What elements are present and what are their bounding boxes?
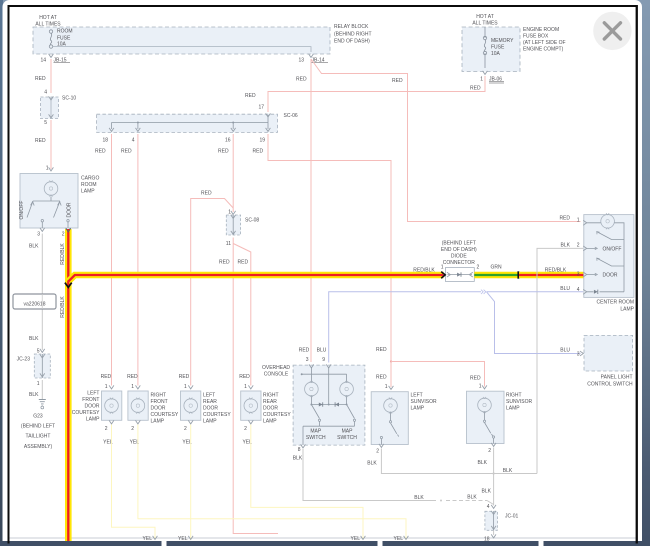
svg-text:LAMP: LAMP <box>263 419 277 425</box>
svg-text:ASSEMBLY): ASSEMBLY) <box>24 444 53 450</box>
svg-text:RIGHT: RIGHT <box>151 393 167 399</box>
ground G23 <box>21 400 55 451</box>
wire BLK center room lamp pin 2 down <box>537 248 583 473</box>
svg-text:3: 3 <box>37 232 40 238</box>
relay block (behind right end of dash) box <box>33 24 372 54</box>
svg-text:LAMP: LAMP <box>203 419 217 425</box>
engine room fuse box (memory fuse) <box>462 27 566 72</box>
connector JC-01 <box>484 504 519 543</box>
svg-text:LAMP: LAMP <box>506 406 520 412</box>
svg-text:3: 3 <box>577 352 580 358</box>
black pin marker on highlighted wire at diode pin 1 <box>441 272 445 279</box>
hot at all times label (left) <box>35 15 61 28</box>
svg-text:ROOM: ROOM <box>81 182 97 188</box>
bottom bar notches <box>162 541 167 546</box>
svg-text:JC-23: JC-23 <box>17 357 31 363</box>
svg-text:MEMORY: MEMORY <box>491 38 514 44</box>
svg-text:BLU: BLU <box>560 348 570 354</box>
wire RED SC-06 pin 4 to right front door courtesy lamp <box>137 134 139 386</box>
wire GRN highlighted: diode connector pin 2 to splice <box>474 272 519 279</box>
svg-text:18: 18 <box>102 138 108 144</box>
svg-text:LAMP: LAMP <box>86 417 100 423</box>
black junction arrow on highlighted wire <box>65 283 72 288</box>
svg-text:RED: RED <box>35 138 46 144</box>
svg-text:RED: RED <box>101 374 112 380</box>
svg-text:RIGHT: RIGHT <box>263 393 279 399</box>
svg-text:CONTROL SWITCH: CONTROL SWITCH <box>587 382 633 388</box>
svg-text:BLK: BLK <box>482 489 492 495</box>
svg-text:18: 18 <box>484 537 490 543</box>
svg-text:1: 1 <box>244 384 247 390</box>
svg-text:5: 5 <box>44 120 47 126</box>
map lamp left <box>305 381 319 397</box>
svg-text:RED: RED <box>179 374 190 380</box>
wire RED branch to left rear door courtesy lamp <box>191 199 234 386</box>
wire RED JB-06 to SC-06 pin 17 <box>268 76 485 112</box>
svg-text:FRONT: FRONT <box>82 397 99 403</box>
map switch right <box>347 405 355 419</box>
svg-text:BLK: BLK <box>29 336 39 342</box>
svg-text:RED/BLK: RED/BLK <box>413 268 435 274</box>
cargo room lamp <box>19 166 99 238</box>
connector SC-10 <box>41 90 77 127</box>
svg-text:RED: RED <box>376 375 387 381</box>
svg-text:FUSE: FUSE <box>491 45 505 51</box>
wire YEL right front lamp pin 2 to bottom <box>138 425 406 541</box>
svg-text:BLK: BLK <box>414 495 424 501</box>
svg-text:END OF DASH): END OF DASH) <box>334 39 370 45</box>
svg-text:11: 11 <box>226 241 231 247</box>
svg-text:ALL TIMES: ALL TIMES <box>472 21 498 27</box>
svg-text:RED: RED <box>245 93 256 99</box>
fuse ROOM FUSE 10A <box>49 29 72 49</box>
svg-text:PANEL LIGHT: PANEL LIGHT <box>601 375 633 381</box>
svg-text:BLK: BLK <box>467 495 477 501</box>
svg-text:DOOR: DOOR <box>603 273 618 279</box>
svg-text:4: 4 <box>132 138 135 144</box>
svg-text:(BEHIND LEFT: (BEHIND LEFT <box>442 241 476 247</box>
svg-text:HOT AT: HOT AT <box>39 15 57 21</box>
svg-text:1: 1 <box>480 77 483 83</box>
svg-text:1: 1 <box>46 166 49 172</box>
wire RED fuse to SC-10 <box>50 59 52 93</box>
left rear door courtesy lamp <box>179 374 232 446</box>
svg-text:DOOR: DOOR <box>203 406 218 412</box>
wire BLK overhead console pin 8 to JC-01 <box>303 449 436 501</box>
svg-text:RED: RED <box>121 149 132 155</box>
svg-text:YEL: YEL <box>394 536 404 542</box>
right rear door courtesy lamp <box>239 374 291 446</box>
svg-text:(BEHIND RIGHT: (BEHIND RIGHT <box>334 32 372 38</box>
wire BLU break chevrons <box>481 290 486 294</box>
svg-text:1: 1 <box>385 384 388 390</box>
svg-text:G23: G23 <box>33 414 43 420</box>
svg-text:RED: RED <box>218 149 229 155</box>
wire RED/BLK highlighted horizontal branch to diode connector <box>68 275 443 282</box>
wire RED SC-10 to cargo room lamp <box>50 120 52 169</box>
svg-text:DOOR: DOOR <box>263 406 278 412</box>
wire RED junction to left sunvisor lamp pin 1 <box>390 362 392 388</box>
right sunvisor lamp <box>467 384 533 455</box>
fuse MEMORY FUSE 10A <box>483 36 514 57</box>
connector JC-23 <box>17 349 51 388</box>
svg-text:2: 2 <box>131 426 134 432</box>
svg-text:4: 4 <box>44 90 47 96</box>
wire RED/BLK highlighted: splice to center room lamp pin 3 <box>519 272 584 279</box>
svg-text:2: 2 <box>244 426 247 432</box>
wire BLK cargo lamp pin 3 to JC-23 <box>41 234 43 351</box>
page bottom hairline <box>8 537 636 539</box>
label box va220618 <box>13 294 56 309</box>
svg-text:SC-08: SC-08 <box>245 218 259 224</box>
svg-text:2: 2 <box>477 265 480 271</box>
svg-text:RELAY BLOCK: RELAY BLOCK <box>334 24 369 30</box>
svg-text:COURTESY: COURTESY <box>72 410 100 416</box>
bottom dark bar <box>0 541 650 546</box>
svg-text:DOOR: DOOR <box>85 404 100 410</box>
svg-text:COURTESY: COURTESY <box>151 412 179 418</box>
map lamp right <box>340 381 354 397</box>
close button <box>593 12 631 50</box>
svg-text:13: 13 <box>298 58 304 64</box>
svg-text:CENTER ROOM: CENTER ROOM <box>597 300 635 306</box>
svg-text:RED: RED <box>559 216 570 222</box>
pin 14 JB-15 <box>40 54 70 64</box>
svg-text:RED: RED <box>392 78 403 84</box>
svg-text:RED/BLK: RED/BLK <box>60 243 66 265</box>
diode connector (behind left end of dash) <box>441 241 480 282</box>
wire RED SC-06 pin 19 to sunvisor lamps junction <box>268 134 391 362</box>
svg-text:LAMP: LAMP <box>81 189 95 195</box>
svg-text:FUSE BOX: FUSE BOX <box>523 34 549 40</box>
center room lamp <box>577 213 635 312</box>
wire RED JB-14 down to overhead console pin 3 <box>310 59 312 362</box>
diodes between map lamps <box>319 402 323 406</box>
svg-text:COURTESY: COURTESY <box>263 412 291 418</box>
hot at all times label (right) <box>472 14 498 27</box>
svg-text:DIODE: DIODE <box>451 254 468 260</box>
svg-text:3: 3 <box>577 272 580 278</box>
svg-text:RED: RED <box>470 86 481 92</box>
svg-text:ENGINE ROOM: ENGINE ROOM <box>523 27 559 33</box>
svg-text:RED: RED <box>253 149 264 155</box>
svg-text:CARGO: CARGO <box>81 176 99 182</box>
svg-text:RED: RED <box>201 191 212 197</box>
svg-text:1: 1 <box>441 265 444 271</box>
svg-text:LAMP: LAMP <box>411 406 425 412</box>
wire RED JB-14 diagonal branch to center room lamp pin 1 <box>311 59 581 222</box>
svg-text:REAR: REAR <box>263 399 277 405</box>
svg-text:LAMP: LAMP <box>620 307 634 313</box>
svg-text:ON/OFF: ON/OFF <box>603 247 622 253</box>
svg-text:YEL: YEL <box>178 536 188 542</box>
svg-text:RED: RED <box>376 347 387 353</box>
svg-text:2: 2 <box>488 448 491 454</box>
svg-text:BLU: BLU <box>317 348 327 354</box>
svg-text:17: 17 <box>258 105 264 111</box>
relay block internal bus wire <box>52 47 311 52</box>
svg-text:4: 4 <box>487 504 490 510</box>
svg-text:14: 14 <box>40 58 46 64</box>
svg-text:BLU: BLU <box>560 286 570 292</box>
svg-text:GRN: GRN <box>490 265 502 271</box>
svg-text:BLK: BLK <box>367 461 377 467</box>
svg-text:2: 2 <box>577 243 580 249</box>
svg-text:RED: RED <box>299 348 310 354</box>
svg-text:8: 8 <box>298 447 301 453</box>
left front door courtesy lamp <box>72 374 122 446</box>
wire YEL right rear lamp pin 2 to bottom <box>251 425 363 541</box>
svg-text:2: 2 <box>105 426 108 432</box>
svg-text:16: 16 <box>225 138 231 144</box>
svg-text:JC-01: JC-01 <box>505 514 519 520</box>
pin 2 chevron over highlighted wire <box>66 228 71 232</box>
svg-text:RED: RED <box>127 374 138 380</box>
svg-text:RED: RED <box>296 77 307 83</box>
svg-text:(AT LEFT SIDE OF: (AT LEFT SIDE OF <box>523 40 566 46</box>
wire BLK continues through label box <box>41 294 43 309</box>
svg-text:SC-10: SC-10 <box>62 96 76 102</box>
svg-text:YEL: YEL <box>351 536 361 542</box>
wire RED SC-08 pin 11 to right rear door courtesy lamp <box>233 244 251 386</box>
svg-text:1: 1 <box>479 384 482 390</box>
svg-text:COURTESY: COURTESY <box>203 412 231 418</box>
overhead console <box>262 348 365 454</box>
svg-text:CONNECTOR: CONNECTOR <box>443 260 476 266</box>
svg-text:BLK: BLK <box>29 244 39 250</box>
black splice tick on highlighted wire <box>517 271 519 278</box>
svg-text:LEFT: LEFT <box>203 393 215 399</box>
svg-text:BLK: BLK <box>478 460 488 466</box>
svg-text:LAMP: LAMP <box>151 419 165 425</box>
map switch left <box>303 405 355 446</box>
wire RED/BLK highlighted: cargo lamp pin 2 down to bottom <box>65 229 72 541</box>
svg-text:OVERHEAD: OVERHEAD <box>262 365 290 371</box>
svg-text:RED: RED <box>219 260 230 266</box>
svg-text:RED: RED <box>238 260 249 266</box>
svg-text:ROOM: ROOM <box>57 29 73 35</box>
panel light control switch <box>560 335 633 387</box>
svg-text:BLK: BLK <box>29 392 39 398</box>
svg-text:DOOR: DOOR <box>67 202 73 217</box>
svg-text:3: 3 <box>306 357 309 363</box>
wire RED SC-08 pin 11 down to bottom edge <box>233 238 278 534</box>
svg-text:SUNVISOR: SUNVISOR <box>506 399 533 405</box>
svg-text:LEFT: LEFT <box>87 391 99 397</box>
black frame border <box>8 5 10 544</box>
svg-text:RED: RED <box>470 376 481 382</box>
svg-text:BLK: BLK <box>503 468 513 474</box>
svg-text:RED/BLK: RED/BLK <box>545 268 567 274</box>
wire YEL left front lamp pin 2 to bottom <box>112 425 156 541</box>
wire BLK JC-23 to ground G23 <box>41 380 43 399</box>
svg-text:SUNVISOR: SUNVISOR <box>411 399 438 405</box>
svg-text:RED: RED <box>95 149 106 155</box>
svg-text:2: 2 <box>376 449 379 455</box>
svg-text:END OF DASH): END OF DASH) <box>441 247 477 253</box>
svg-text:HOT AT: HOT AT <box>476 14 494 20</box>
svg-text:9: 9 <box>322 357 325 363</box>
svg-text:SC-06: SC-06 <box>284 113 298 119</box>
svg-text:2: 2 <box>184 426 187 432</box>
svg-text:10A: 10A <box>491 51 501 57</box>
wire BLU long run to overhead console pin 9 <box>329 292 481 363</box>
svg-text:19: 19 <box>259 138 265 144</box>
svg-text:BLK: BLK <box>561 243 571 249</box>
wire BLU jog down to panel light control switch pin 3 <box>487 292 581 354</box>
svg-text:ALL TIMES: ALL TIMES <box>35 22 61 28</box>
svg-text:RED: RED <box>35 76 46 82</box>
wire BLU center room lamp pin 4 <box>487 291 584 293</box>
svg-text:RED: RED <box>239 374 250 380</box>
pin 1 JB-06 <box>480 71 504 83</box>
wire BLK right sunvisor pin 2 down to JC-01 pin 4 <box>493 448 495 506</box>
left sunvisor lamp <box>371 384 437 455</box>
svg-text:RIGHT: RIGHT <box>506 393 522 399</box>
svg-text:(BEHIND LEFT: (BEHIND LEFT <box>21 424 55 430</box>
svg-text:2: 2 <box>62 232 65 238</box>
wire BLK left sunvisor pin 2 to ground run <box>381 449 537 474</box>
svg-text:1: 1 <box>131 384 134 390</box>
svg-text:MAP: MAP <box>310 429 322 435</box>
right front door courtesy lamp <box>127 374 179 446</box>
wire RED junction to right sunvisor lamp pin 1 <box>391 362 485 387</box>
svg-text:1: 1 <box>184 384 187 390</box>
connector SC-08 <box>226 210 260 248</box>
svg-text:ON/OFF: ON/OFF <box>19 201 25 220</box>
connector SC-06 <box>97 105 298 144</box>
svg-text:1: 1 <box>577 218 580 224</box>
svg-text:BLK: BLK <box>293 456 303 462</box>
svg-text:CONSOLE: CONSOLE <box>264 372 289 378</box>
wire YEL left rear lamp pin 2 to bottom <box>190 425 192 541</box>
svg-text:REAR: REAR <box>203 399 217 405</box>
svg-text:TAILLIGHT: TAILLIGHT <box>26 434 51 440</box>
svg-text:1: 1 <box>37 381 40 387</box>
pin 13 JB-14 <box>298 54 328 64</box>
svg-text:SWITCH: SWITCH <box>337 435 357 441</box>
svg-text:LEFT: LEFT <box>411 393 423 399</box>
svg-text:DOOR: DOOR <box>151 406 166 412</box>
wire RED SC-06 pin 18 to left front door courtesy lamp <box>111 134 113 386</box>
svg-text:YEL: YEL <box>143 536 153 542</box>
wire RED SC-06 pin 16 to SC-08 pin 1 <box>232 134 234 212</box>
svg-text:MAP: MAP <box>342 429 354 435</box>
svg-text:ENGINE COMPT): ENGINE COMPT) <box>523 47 564 53</box>
svg-text:FRONT: FRONT <box>151 399 168 405</box>
svg-text:SWITCH: SWITCH <box>306 435 326 441</box>
svg-text:RED/BLK: RED/BLK <box>60 296 66 318</box>
svg-text:1: 1 <box>105 384 108 390</box>
